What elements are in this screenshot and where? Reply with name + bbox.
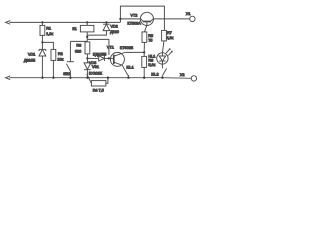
svg-text:КД105Б: КД105Б xyxy=(93,51,107,56)
switch SB1 xyxy=(69,41,71,62)
svg-text:10к: 10к xyxy=(57,57,63,62)
relay coil K1 xyxy=(86,21,88,23)
svg-text:Д220: Д220 xyxy=(110,29,120,34)
wire branch to R2 xyxy=(42,42,53,49)
terminal X1 xyxy=(190,16,195,21)
svg-text:Д816Б: Д816Б xyxy=(24,58,36,63)
node coil bottom junction xyxy=(86,36,88,38)
resistor R3 xyxy=(70,40,87,42)
svg-text:R2: R2 xyxy=(58,51,63,56)
transistor VT1 xyxy=(110,52,124,66)
wire to VD2 xyxy=(87,31,106,36)
svg-text:5,6к: 5,6к xyxy=(148,62,155,67)
svg-text:Х1: Х1 xyxy=(186,11,191,16)
diode VD1 zener xyxy=(41,42,43,49)
node arrow bottom-left xyxy=(6,76,11,80)
node rail dots xyxy=(41,77,43,79)
wire bottom rail xyxy=(9,77,162,79)
wire top rail xyxy=(9,21,120,23)
diode VD3 xyxy=(87,57,98,59)
svg-text:К1.1: К1.1 xyxy=(126,65,133,70)
thyristor VS1 xyxy=(84,63,91,70)
resistor R5 xyxy=(144,25,147,32)
svg-text:1,3к: 1,3к xyxy=(46,31,53,36)
svg-text:R3: R3 xyxy=(76,42,81,47)
svg-text:VD2: VD2 xyxy=(110,24,117,29)
terminal X2 xyxy=(191,76,196,81)
svg-text:VT2: VT2 xyxy=(130,12,137,17)
diode VD2 xyxy=(105,21,107,23)
svg-text:КУ201К: КУ201К xyxy=(89,71,103,76)
svg-text:К1: К1 xyxy=(72,26,76,31)
svg-text:К1.2: К1.2 xyxy=(151,71,158,76)
relay contact K1.2 xyxy=(161,64,163,68)
svg-text:VT1: VT1 xyxy=(107,45,114,50)
svg-text:SB1: SB1 xyxy=(63,71,70,76)
svg-text:R4 7,5: R4 7,5 xyxy=(93,87,104,92)
resistor R7 xyxy=(162,30,167,41)
node R3 bottom xyxy=(86,57,88,59)
svg-text:VD1: VD1 xyxy=(28,52,35,57)
LED HL1 xyxy=(157,53,168,64)
node VT1 base xyxy=(108,57,110,59)
svg-text:4,3к: 4,3к xyxy=(166,35,173,40)
svg-text:КТ608Б: КТ608Б xyxy=(120,45,134,50)
resistor R2 xyxy=(51,49,56,60)
node junction R1 bottom xyxy=(41,41,43,43)
wire to VT1 base xyxy=(87,39,109,55)
transistor VT2 xyxy=(140,12,153,25)
svg-text:КТ803А: КТ803А xyxy=(127,20,141,25)
svg-text:VS1: VS1 xyxy=(92,64,99,69)
resistor R1 xyxy=(41,21,43,23)
node arrow top-left xyxy=(6,21,11,25)
resistor R4 xyxy=(91,81,106,86)
svg-text:Х2: Х2 xyxy=(180,72,185,77)
resistor R8 xyxy=(143,52,145,56)
svg-text:620: 620 xyxy=(75,49,82,54)
wire VT1 collector xyxy=(125,51,144,53)
wire top corner up and across xyxy=(120,6,164,30)
svg-text:75: 75 xyxy=(148,37,152,42)
